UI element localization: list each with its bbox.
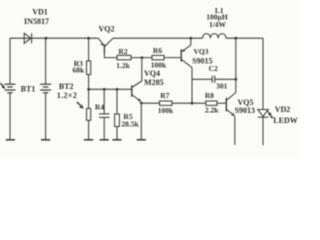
- svg-text:100k: 100k: [158, 106, 174, 115]
- svg-text:VD1: VD1: [32, 8, 48, 17]
- ground foot C1: [100, 139, 109, 141]
- node H (C1 top junction): [103, 88, 106, 91]
- resistor R7: [160, 101, 173, 105]
- svg-text:VQ2: VQ2: [99, 24, 115, 33]
- wire R7 to node K: [172, 102, 206, 104]
- wire R8 to VQ5 base: [217, 102, 226, 104]
- resistor R4: [88, 89, 90, 108]
- svg-text:IN5817: IN5817: [24, 17, 49, 26]
- wire R2 to node: [131, 57, 152, 59]
- wire BT2 branch vertical: [45, 38, 47, 84]
- resistor R3: [87, 61, 91, 75]
- resistor R6: [152, 55, 164, 59]
- arrow at BT1 (solar): [0, 83, 5, 89]
- wire left vertical (BT1 branch): [9, 38, 11, 84]
- node E (C2 / output vertical junction): [234, 78, 237, 81]
- transistor VQ4: [132, 81, 142, 102]
- wire top rail middle segment: [113, 37, 203, 39]
- svg-text:68k: 68k: [72, 66, 85, 75]
- arrow at R4: [77, 102, 84, 109]
- ground foot R5: [112, 139, 121, 141]
- inductor L1: [203, 34, 227, 39]
- svg-text:R6: R6: [153, 46, 162, 55]
- wire node C down to VQ4 collector: [141, 58, 143, 81]
- svg-text:1/4W: 1/4W: [209, 20, 227, 29]
- svg-text:1.2×2: 1.2×2: [57, 91, 78, 100]
- battery BT1: [5, 84, 16, 93]
- wire top rail left segment: [10, 37, 98, 39]
- svg-text:BT2: BT2: [59, 82, 74, 91]
- ground foot VQ4 emitter: [137, 139, 146, 141]
- wire LED cathode down: [262, 117, 264, 145]
- node K (R7/R8/VQ3-collector junction): [191, 102, 194, 105]
- wire middle rail to VQ4 base: [89, 88, 132, 90]
- svg-text:1.2k: 1.2k: [116, 61, 130, 70]
- svg-text:C2: C2: [209, 64, 218, 73]
- svg-text:S9013: S9013: [235, 106, 255, 115]
- wire C2 to output vertical: [215, 78, 236, 80]
- svg-text:R2: R2: [118, 47, 127, 56]
- LED VD2: [258, 110, 274, 119]
- ground foot BT2: [41, 139, 50, 141]
- svg-text:2.2k: 2.2k: [205, 106, 219, 115]
- svg-text:BT1: BT1: [21, 84, 36, 93]
- svg-text:VQ3: VQ3: [194, 47, 209, 56]
- capacitor C2: [212, 76, 215, 83]
- transistor VQ5: [226, 93, 236, 116]
- svg-text:VD2: VD2: [275, 105, 291, 114]
- wire C2 branch: [192, 78, 212, 80]
- node F (L1 / output vertical on rail): [234, 37, 237, 40]
- ground foot BT1: [6, 139, 15, 141]
- capacitor C1: [103, 89, 105, 114]
- transistor VQ3: [181, 38, 192, 67]
- node C (R2/R6/VQ4-collector junction): [141, 56, 144, 59]
- svg-text:M285: M285: [144, 78, 164, 87]
- svg-text:R4: R4: [95, 103, 104, 112]
- svg-text:LEDW: LEDW: [273, 116, 297, 125]
- svg-text:301: 301: [216, 82, 228, 91]
- wire VQ4 emitter down: [140, 103, 142, 139]
- transistor VQ2: [98, 38, 117, 57]
- wire top rail right segment after inductor: [226, 37, 263, 39]
- wire right corner down to LED: [262, 38, 264, 109]
- resistor R2: [117, 55, 131, 59]
- svg-text:VQ4: VQ4: [144, 69, 160, 78]
- node I (R5 top junction): [116, 88, 119, 91]
- svg-text:28.5k: 28.5k: [121, 120, 139, 129]
- wire output vertical (rail to VQ5 collector): [235, 38, 237, 92]
- resistor R5: [116, 89, 118, 114]
- node G (middle rail R3/R4 junction): [87, 88, 90, 91]
- svg-text:R8: R8: [205, 91, 214, 100]
- wire VQ5 emitter down: [234, 116, 236, 145]
- resistor R8: [206, 101, 217, 105]
- ground foot R4: [84, 139, 93, 141]
- wire R3 branch vertical: [88, 38, 90, 61]
- wire R3 to mid rail: [88, 75, 90, 90]
- wire VQ3 collector down: [191, 68, 193, 104]
- svg-text:R7: R7: [160, 91, 169, 100]
- wire R6 to VQ3 base: [164, 57, 181, 59]
- node B (R3 top junction on rail): [87, 37, 90, 40]
- battery BT2: [40, 84, 51, 93]
- node A (diode-cathode / BT2 junction): [45, 37, 48, 40]
- wire VQ4 emitter to R7: [141, 102, 159, 104]
- node D (VQ3 emitter on rail): [189, 37, 192, 40]
- diode VD1: [24, 33, 31, 43]
- node J (VQ4 emitter junction): [140, 102, 143, 105]
